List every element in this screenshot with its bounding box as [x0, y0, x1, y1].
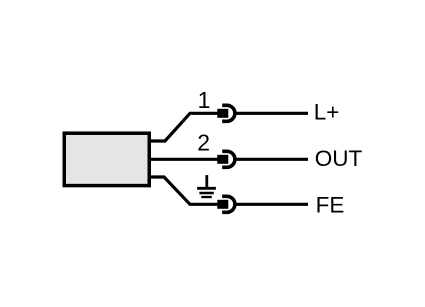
svg-text:FE: FE [316, 192, 345, 217]
svg-text:1: 1 [198, 87, 211, 113]
svg-text:L+: L+ [314, 100, 340, 125]
svg-text:2: 2 [197, 130, 210, 156]
svg-text:OUT: OUT [315, 146, 363, 171]
